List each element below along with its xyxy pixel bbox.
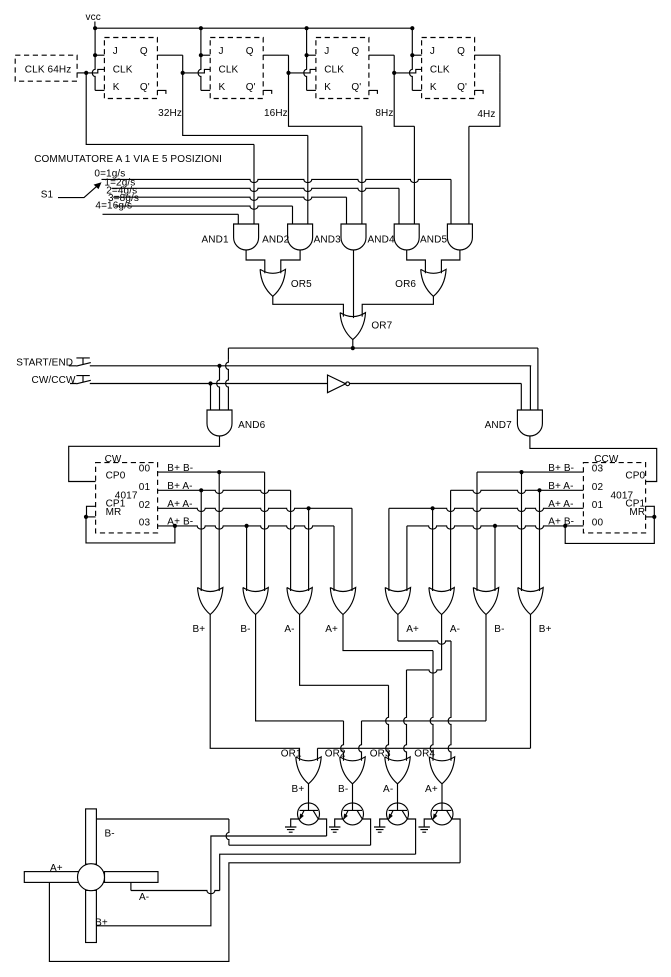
wire U4 Q out bbox=[475, 54, 500, 56]
wire U2 J/K tie bbox=[198, 28, 201, 90]
wire OR7 output bbox=[352, 340, 354, 349]
svg-text:8Hz: 8Hz bbox=[375, 108, 393, 119]
wire A- left to OR3 bbox=[386, 685, 389, 761]
svg-text:J: J bbox=[430, 46, 435, 57]
wire U4 K pin bbox=[412, 89, 421, 91]
wire CCW CP1 tie bbox=[646, 506, 655, 517]
wire 03 to OR B+ right bbox=[521, 472, 523, 591]
svg-text:CLK: CLK bbox=[324, 65, 344, 76]
svg-text:AND5: AND5 bbox=[420, 234, 447, 245]
wire inverter into AND7 bbox=[520, 384, 522, 411]
JK flip-flop U1 bbox=[104, 38, 157, 99]
svg-text:16Hz: 16Hz bbox=[264, 108, 288, 119]
wire Q4 collector bbox=[452, 819, 460, 863]
wire 00 to OR B+ left bbox=[218, 472, 220, 591]
wire U3 J pin bbox=[307, 54, 316, 56]
node U1 vcc tap bbox=[93, 26, 97, 30]
wire U2 K pin bbox=[201, 89, 210, 91]
switch CW/CCW bbox=[70, 376, 91, 384]
svg-text:Q': Q' bbox=[351, 82, 361, 93]
node U2 J tap bbox=[199, 53, 203, 57]
wire row 2 drop to AND3 bbox=[346, 197, 348, 224]
wire CW MR pin bbox=[85, 516, 95, 518]
svg-text:Q: Q bbox=[140, 46, 148, 57]
svg-text:A+: A+ bbox=[50, 863, 63, 874]
svg-text:02: 02 bbox=[592, 482, 604, 493]
wire U1 Q drop bbox=[182, 55, 184, 73]
wire A+ left to OR4 bbox=[430, 651, 433, 761]
node CW MR tap on 03 bbox=[173, 524, 177, 528]
wire U1 J pin bbox=[95, 54, 104, 56]
wire row 1 drop to AND4 bbox=[398, 188, 400, 224]
switch START/END bbox=[69, 358, 91, 366]
node CCW 03 tap B+ bbox=[519, 470, 523, 474]
wire CCW 01 bus bbox=[389, 508, 584, 511]
node U1 J tap bbox=[93, 53, 97, 57]
node 64Hz junction bbox=[84, 71, 88, 75]
wire U2 Q out bbox=[263, 54, 288, 56]
AND gate AND4 bbox=[394, 224, 419, 250]
wire U3 K pin bbox=[307, 89, 316, 91]
svg-text:A-: A- bbox=[383, 784, 393, 795]
node CCW MR junction bbox=[652, 515, 656, 519]
ground Q1 bbox=[285, 827, 296, 832]
wire B- left down bbox=[256, 615, 344, 721]
svg-text:B+: B+ bbox=[192, 624, 205, 635]
wire 03 to OR A+ left bbox=[333, 526, 335, 591]
transistor Q1 bbox=[298, 803, 320, 825]
wire B- right bus bbox=[362, 720, 487, 722]
svg-text:J: J bbox=[324, 46, 329, 57]
AND gate AND5 bbox=[447, 224, 472, 250]
node START/END tap bbox=[217, 364, 221, 368]
node U4 J tap bbox=[410, 53, 414, 57]
node CW/CCW tap bbox=[208, 381, 212, 385]
wire clock into AND6 upper bbox=[227, 348, 229, 360]
OR gate phase A- right bbox=[429, 588, 454, 615]
wire CCW MR to output 00 bbox=[565, 517, 654, 544]
svg-text:03: 03 bbox=[139, 517, 151, 528]
wire Q1 emitter to ground bbox=[291, 819, 300, 827]
svg-text:CLK: CLK bbox=[430, 65, 450, 76]
node U3 Q tap bbox=[392, 71, 396, 75]
wire 8Hz drop to AND4 bbox=[413, 126, 415, 224]
AND gate AND7 bbox=[517, 410, 542, 436]
wire AND2 to OR5 bbox=[281, 250, 300, 273]
switch S1 wiper bbox=[58, 184, 99, 197]
wire clock output bbox=[77, 72, 86, 74]
node 03 tap B- bbox=[245, 524, 249, 528]
wire 64Hz route bbox=[86, 73, 254, 144]
wire A- right down bbox=[441, 615, 443, 670]
node U2 Q tap bbox=[286, 71, 290, 75]
node 00 tap B+ bbox=[217, 470, 221, 474]
wire CW 00 bus bbox=[158, 471, 265, 473]
wire Q2 B- line bbox=[229, 844, 371, 846]
svg-text:B-: B- bbox=[105, 829, 115, 840]
wire 03 to OR B- right bbox=[476, 472, 478, 591]
OR gate phase B+ left bbox=[198, 588, 223, 615]
JK flip-flop U2 bbox=[210, 38, 263, 99]
svg-text:00: 00 bbox=[592, 517, 604, 528]
svg-text:B-: B- bbox=[494, 624, 504, 635]
switch S1 arrowhead bbox=[94, 182, 102, 189]
wire row 4 drop to AND1 bbox=[237, 214, 239, 224]
wire U2 J pin bbox=[201, 54, 210, 56]
wire U3 Q drop bbox=[393, 55, 395, 73]
wire A- right to OR3 bbox=[404, 670, 407, 761]
wire vcc stem bbox=[94, 22, 96, 29]
OR gate OR6 bbox=[421, 269, 446, 296]
wire A+ left down bbox=[343, 615, 433, 651]
wire 00 to OR B- right bbox=[494, 526, 496, 591]
svg-text:AND2: AND2 bbox=[262, 234, 289, 245]
wire CCW 03 bus bbox=[477, 471, 583, 473]
svg-text:Q': Q' bbox=[457, 82, 467, 93]
svg-text:S1: S1 bbox=[41, 190, 54, 201]
node CCW MR tap on 00 bbox=[563, 524, 567, 528]
svg-text:J: J bbox=[219, 46, 224, 57]
svg-text:A+: A+ bbox=[325, 624, 338, 635]
wire CW 01 bus bbox=[158, 490, 291, 493]
svg-text:AND7: AND7 bbox=[485, 420, 512, 431]
OR gate OR2 bbox=[340, 757, 365, 784]
wire U4 Q' stub bbox=[475, 90, 484, 94]
svg-text:A-: A- bbox=[139, 892, 149, 903]
svg-text:A+: A+ bbox=[406, 624, 419, 635]
clock source CLK 64Hz box bbox=[15, 55, 77, 81]
inverter U5 bbox=[328, 375, 346, 393]
ground Q3 bbox=[374, 827, 385, 832]
wire Q3 emitter to ground bbox=[380, 819, 389, 827]
wire AND6 out to CW CP0 bbox=[69, 436, 220, 482]
wire Q1 collector bbox=[318, 819, 326, 836]
svg-text:Q: Q bbox=[351, 46, 359, 57]
wire 01 to OR A+ right bbox=[388, 508, 390, 591]
wire 4Hz route bbox=[469, 73, 500, 126]
transistor Q3 bbox=[387, 803, 409, 825]
wire B- drop bbox=[226, 819, 229, 845]
OR gate phase B+ right bbox=[518, 588, 543, 615]
wire U1 Q to U2 CLK bbox=[183, 69, 211, 73]
node U2 vcc tap bbox=[199, 26, 203, 30]
OR gate phase A- left bbox=[287, 588, 312, 615]
svg-text:CP0: CP0 bbox=[106, 470, 126, 481]
wire 8Hz route bbox=[394, 73, 414, 126]
wire CW 03 bus bbox=[158, 526, 334, 529]
svg-text:A-: A- bbox=[450, 624, 460, 635]
wire OR2 to Q2 base bbox=[352, 784, 354, 811]
wire CW MR to output 03 bbox=[86, 517, 175, 543]
svg-text:B-: B- bbox=[338, 784, 348, 795]
AND gate AND1 bbox=[234, 224, 259, 250]
wire B- right to OR2 bbox=[359, 721, 362, 761]
wire CW CP1 tie bbox=[87, 506, 96, 517]
node 02 tap A- bbox=[307, 506, 311, 510]
svg-text:AND6: AND6 bbox=[238, 420, 265, 431]
svg-text:00: 00 bbox=[139, 464, 151, 475]
node 01 tap B+ bbox=[199, 488, 203, 492]
svg-text:OR6: OR6 bbox=[395, 279, 416, 290]
svg-text:32Hz: 32Hz bbox=[158, 108, 182, 119]
wire clock to U1 CLK bbox=[86, 69, 104, 73]
node CCW 01 tap A- bbox=[431, 506, 435, 510]
svg-text:A+: A+ bbox=[425, 784, 438, 795]
svg-text:K: K bbox=[430, 82, 437, 93]
svg-text:vcc: vcc bbox=[86, 12, 101, 23]
wire step clock bus bbox=[228, 347, 538, 349]
AND gate AND3 bbox=[341, 224, 366, 250]
svg-text:AND3: AND3 bbox=[314, 234, 341, 245]
wire A+ right down bbox=[397, 615, 399, 642]
wire Q4 A+ to motor bbox=[49, 863, 460, 962]
svg-text:OR7: OR7 bbox=[371, 321, 392, 332]
svg-text:01: 01 bbox=[139, 482, 151, 493]
wire START/END into AND7 bbox=[529, 366, 531, 410]
wire selector row 3 bbox=[115, 206, 293, 209]
svg-text:Q': Q' bbox=[246, 82, 256, 93]
wire U3 Q out bbox=[369, 54, 394, 56]
wire B+ right down bbox=[530, 615, 532, 749]
svg-text:K: K bbox=[324, 82, 331, 93]
node CW MR junction bbox=[84, 515, 88, 519]
wire U2 Q' stub bbox=[263, 90, 272, 94]
wire AND1 to OR5 bbox=[246, 250, 265, 273]
wire AND3 to OR7 bbox=[353, 250, 355, 318]
OR gate OR3 bbox=[385, 757, 410, 784]
wire A+ right to OR4 bbox=[448, 641, 451, 761]
svg-text:CW: CW bbox=[105, 454, 122, 465]
wire B- left to OR2 bbox=[341, 721, 344, 761]
wire U1 J/K tie bbox=[92, 28, 95, 90]
wire 01 to OR A- right bbox=[432, 508, 434, 591]
wire U2 Q to U3 CLK bbox=[289, 69, 316, 73]
node U4 vcc tap bbox=[410, 26, 414, 30]
node U3 vcc tap bbox=[305, 26, 309, 30]
svg-text:03: 03 bbox=[592, 464, 604, 475]
AND gate AND6 bbox=[207, 410, 232, 436]
wire CW/CCW into AND6 bbox=[210, 384, 212, 411]
wire 02 to OR A- right bbox=[450, 490, 452, 591]
svg-text:MR: MR bbox=[106, 507, 122, 518]
wire B+ left to OR1 bbox=[210, 615, 299, 761]
wire U3 Q' stub bbox=[369, 90, 378, 94]
wire U4 Q drop bbox=[499, 55, 501, 73]
wire Q2 collector bbox=[362, 819, 370, 845]
svg-text:Q: Q bbox=[457, 46, 465, 57]
svg-text:B+: B+ bbox=[95, 917, 108, 928]
wire U1 Q' stub bbox=[157, 90, 166, 94]
wire 16Hz route bbox=[289, 73, 362, 126]
svg-text:CLK 64Hz: CLK 64Hz bbox=[25, 65, 72, 76]
wire AND5 to OR6 bbox=[441, 250, 460, 273]
svg-text:OR1: OR1 bbox=[281, 748, 302, 759]
svg-text:K: K bbox=[219, 82, 226, 93]
svg-text:CP0: CP0 bbox=[625, 470, 645, 481]
wire 16Hz drop to AND3 bbox=[361, 126, 363, 224]
wire 01 to OR B+ left bbox=[200, 490, 202, 591]
JK flip-flop U3 bbox=[316, 38, 369, 99]
wire A+ right jog bbox=[398, 641, 451, 644]
svg-text:OR3: OR3 bbox=[370, 748, 391, 759]
svg-text:B+: B+ bbox=[539, 624, 552, 635]
wire 00 to OR A+ right bbox=[406, 526, 408, 591]
wire row 3 drop to AND2 bbox=[292, 206, 294, 224]
wire 02 to OR A+ left bbox=[351, 508, 353, 591]
wire A- lead bbox=[131, 891, 220, 894]
node step clock bbox=[351, 346, 355, 350]
svg-text:J: J bbox=[113, 46, 118, 57]
wire A- left down bbox=[300, 615, 389, 686]
wire motor B- lead bbox=[96, 818, 229, 820]
counter U6 4017 CW bbox=[96, 454, 158, 533]
wire B- right down bbox=[485, 615, 487, 721]
svg-text:4=16g/s: 4=16g/s bbox=[95, 201, 132, 212]
wire CW 02 bus bbox=[158, 508, 352, 511]
svg-text:Q': Q' bbox=[140, 82, 150, 93]
wire clock into AND6 bbox=[226, 360, 229, 410]
svg-text:K: K bbox=[113, 82, 120, 93]
wire Q4 emitter to ground bbox=[424, 819, 433, 827]
wire Q2 emitter to ground bbox=[335, 819, 344, 827]
wire 4Hz drop to AND5 bbox=[468, 126, 470, 224]
wire CCW 02 bus bbox=[451, 490, 584, 493]
svg-text:START/END: START/END bbox=[16, 357, 73, 368]
wire OR6 to OR7 bbox=[362, 296, 433, 317]
wire selector row 0 bbox=[102, 179, 452, 182]
wire selector row 1 bbox=[112, 188, 400, 191]
wire A- to coil bbox=[130, 882, 132, 891]
OR gate OR7 bbox=[340, 313, 365, 340]
svg-text:MR: MR bbox=[629, 507, 645, 518]
OR gate OR1 bbox=[296, 757, 321, 784]
wire CCW MR pin bbox=[646, 516, 655, 518]
svg-text:B-: B- bbox=[240, 624, 250, 635]
wire row 0 drop to AND5 bbox=[450, 179, 452, 224]
wire VCC rail bbox=[95, 27, 412, 29]
wire Q1 B+ to motor bbox=[96, 836, 326, 926]
wire START/END into AND6 bbox=[217, 366, 220, 410]
wire selector row 2 bbox=[113, 197, 346, 200]
ground Q4 bbox=[419, 827, 430, 832]
wire Q3 collector bbox=[407, 819, 415, 854]
wire OR1 to Q1 base bbox=[308, 784, 310, 811]
wire AND7 out to CCW CP0 bbox=[530, 436, 657, 482]
OR gate phase A+ right bbox=[385, 588, 410, 615]
svg-text:AND1: AND1 bbox=[202, 234, 229, 245]
svg-text:CW/CCW: CW/CCW bbox=[32, 375, 76, 386]
OR gate phase B- left bbox=[243, 588, 268, 615]
wire 32Hz drop to AND2 bbox=[307, 135, 309, 224]
wire Q3 A- line bbox=[220, 854, 416, 890]
svg-text:B+: B+ bbox=[292, 784, 305, 795]
svg-text:AND4: AND4 bbox=[368, 234, 395, 245]
wire AND4 to OR6 bbox=[407, 250, 426, 273]
wire OR3 to Q3 base bbox=[397, 784, 399, 811]
wire U1 K pin bbox=[95, 89, 104, 91]
svg-text:OR2: OR2 bbox=[325, 748, 346, 759]
svg-text:CLK: CLK bbox=[113, 65, 133, 76]
wire selector row 4 bbox=[103, 213, 239, 215]
wire B+ right bus bbox=[318, 747, 531, 749]
wire START/END line bbox=[90, 365, 531, 367]
node U1 Q tap bbox=[181, 71, 185, 75]
wire U2 Q drop bbox=[288, 55, 290, 73]
wire U3 J/K tie bbox=[304, 28, 307, 90]
svg-text:COMMUTATORE A 1 VIA E 5 POSIZI: COMMUTATORE A 1 VIA E 5 POSIZIONI bbox=[34, 154, 222, 165]
ground Q2 bbox=[329, 827, 340, 832]
wire 64Hz drop to AND1 bbox=[253, 144, 255, 224]
wire inverter out to AND7 bbox=[350, 383, 522, 385]
JK flip-flop U4 bbox=[422, 38, 475, 99]
wire U3 Q to U4 CLK bbox=[394, 69, 421, 73]
OR gate phase A+ left bbox=[330, 588, 355, 615]
wire clock into AND7 bbox=[537, 348, 539, 410]
OR gate OR5 bbox=[260, 269, 285, 296]
svg-text:4Hz: 4Hz bbox=[477, 109, 495, 120]
svg-text:A-: A- bbox=[284, 624, 294, 635]
transistor Q4 bbox=[431, 803, 453, 825]
svg-text:01: 01 bbox=[592, 500, 604, 511]
wire B+ right to OR1 bbox=[317, 748, 319, 761]
wire U1 Q out bbox=[157, 54, 182, 56]
node U3 J tap bbox=[305, 53, 309, 57]
svg-text:CLK: CLK bbox=[219, 65, 239, 76]
node CCW 00 tap B- bbox=[493, 524, 497, 528]
wire 32Hz route bbox=[183, 73, 308, 135]
svg-text:Q: Q bbox=[246, 46, 254, 57]
svg-text:OR4: OR4 bbox=[414, 748, 435, 759]
wire 03 to OR B- left bbox=[246, 526, 248, 591]
wire CCW 00 bus bbox=[407, 526, 584, 529]
node CCW 02 tap B+ bbox=[537, 488, 541, 492]
svg-text:OR5: OR5 bbox=[291, 279, 312, 290]
counter U7 4017 CCW bbox=[583, 454, 645, 533]
wire U4 J/K tie bbox=[410, 28, 413, 90]
wire 02 to OR A- left bbox=[308, 508, 310, 591]
wire CW/CCW line bbox=[90, 383, 328, 385]
AND gate AND2 bbox=[288, 224, 313, 250]
wire 01 to OR A- left bbox=[290, 490, 292, 591]
wire 00 to OR B- left bbox=[264, 472, 266, 591]
wire OR5 to OR7 bbox=[273, 296, 344, 317]
OR gate phase B- right bbox=[473, 588, 498, 615]
wire 02 to OR B+ right bbox=[539, 490, 541, 591]
svg-text:02: 02 bbox=[139, 500, 151, 511]
wire OR4 to Q4 base bbox=[441, 784, 443, 811]
OR gate OR4 bbox=[429, 757, 454, 784]
transistor Q2 bbox=[342, 803, 364, 825]
wire A- right jog bbox=[407, 670, 442, 673]
wire U4 J pin bbox=[412, 54, 421, 56]
stepper motor M1 bbox=[24, 809, 158, 943]
